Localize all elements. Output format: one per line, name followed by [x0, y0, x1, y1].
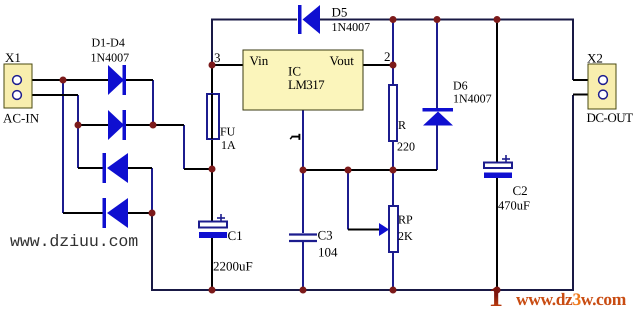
svg-text:R: R: [398, 118, 406, 132]
svg-text:2200uF: 2200uF: [213, 259, 253, 274]
svg-text:Vout: Vout: [330, 53, 355, 68]
svg-text:LM317: LM317: [288, 77, 325, 92]
svg-text:AC-IN: AC-IN: [3, 111, 40, 126]
svg-text:RP: RP: [398, 213, 413, 227]
svg-text:X2: X2: [587, 51, 603, 66]
svg-text:Vin: Vin: [250, 53, 269, 68]
svg-text:C2: C2: [513, 183, 528, 198]
svg-text:2: 2: [384, 49, 391, 64]
svg-text:1: 1: [489, 281, 504, 310]
svg-text:104: 104: [318, 245, 338, 260]
svg-text:C3: C3: [318, 228, 333, 243]
svg-text:1N4007: 1N4007: [332, 20, 371, 34]
svg-text:D5: D5: [332, 4, 348, 19]
svg-text:D1-D4: D1-D4: [92, 36, 125, 50]
svg-text:DC-OUT: DC-OUT: [587, 110, 634, 125]
svg-text:470uF: 470uF: [498, 199, 530, 213]
svg-text:1N4007: 1N4007: [453, 91, 492, 105]
svg-text:220: 220: [397, 140, 415, 154]
svg-text:3: 3: [214, 50, 221, 65]
svg-text:FU: FU: [220, 125, 236, 139]
svg-text:1N4007: 1N4007: [91, 51, 130, 65]
svg-text:C1: C1: [228, 228, 243, 243]
svg-text:2K: 2K: [398, 229, 413, 243]
svg-text:X1: X1: [5, 50, 21, 65]
svg-text:1A: 1A: [221, 138, 236, 152]
svg-text:www.dz3w.com: www.dz3w.com: [516, 289, 627, 309]
svg-text:www.dziuu.com: www.dziuu.com: [10, 232, 138, 251]
